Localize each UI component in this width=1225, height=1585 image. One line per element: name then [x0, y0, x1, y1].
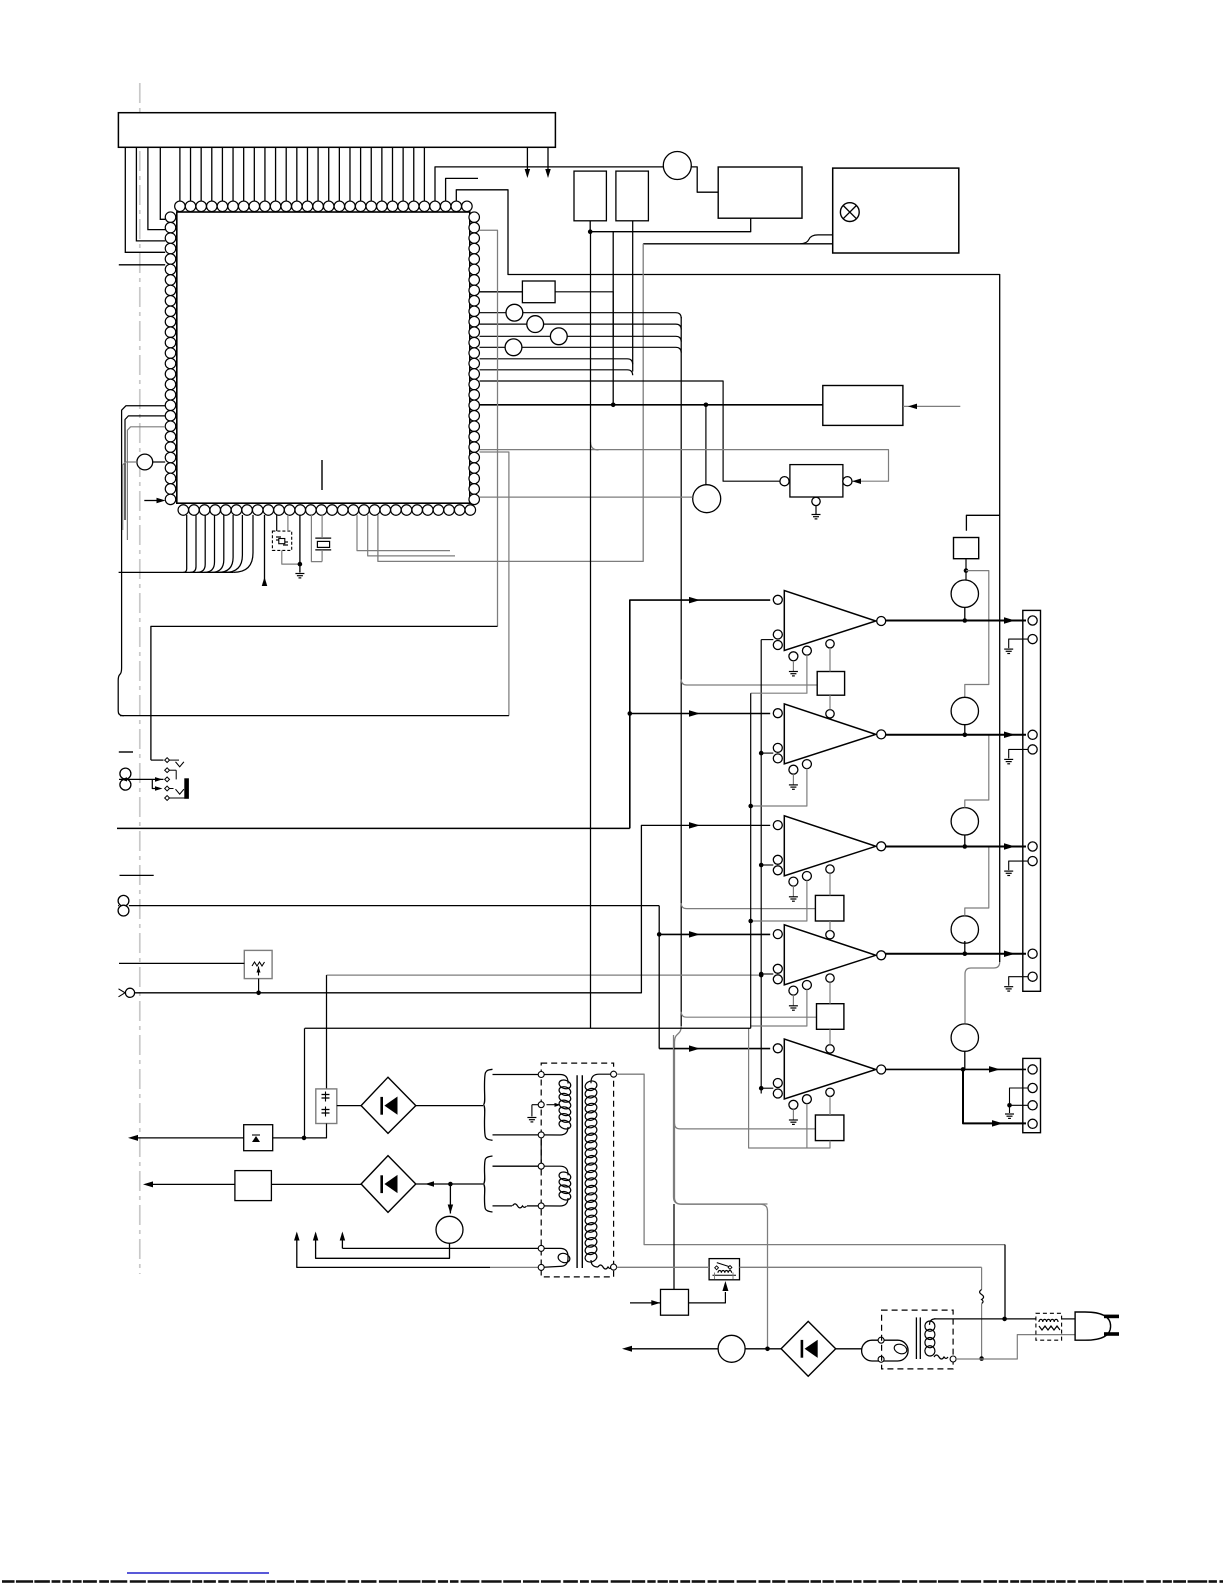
wire brace2 lower: [493, 1205, 513, 1207]
vertical reg rect 2: [616, 171, 649, 221]
cap block: [316, 1089, 337, 1124]
headphone jack: [151, 759, 164, 761]
primary link: [540, 1135, 542, 1166]
crystal X2: [315, 537, 331, 539]
wire cam switch net: [135, 825, 771, 992]
IC U1 pin1 mark: [321, 460, 323, 490]
wire output 4: [885, 953, 1026, 955]
wire trimmer in: [119, 962, 244, 964]
mode box: [823, 386, 903, 426]
vertical reg rect 1: [574, 171, 606, 221]
wire supply b: [490, 1266, 541, 1268]
wire output 5 b: [963, 1069, 1026, 1123]
transformer T2 box: [882, 1310, 954, 1369]
wire conn gnd 2: [1009, 749, 1028, 758]
wire conn gnd 3: [1009, 861, 1028, 870]
wire left pin5 stub: [119, 264, 165, 266]
wire mute row 1: [480, 312, 507, 314]
filter box: [522, 281, 555, 303]
wire label stub 875: [120, 874, 154, 876]
op-amp U6: [784, 1039, 876, 1099]
wire clock out: [435, 167, 663, 201]
wire mute row 3: [480, 335, 551, 337]
wire left long link: [120, 715, 509, 717]
wire filter out: [555, 292, 613, 337]
wire cap bottom: [304, 1124, 327, 1138]
relay drive box: [790, 465, 843, 497]
primary winding 2: [541, 1166, 568, 1175]
control box: [661, 1289, 689, 1315]
wire T2 bottom: [956, 1358, 982, 1360]
wire rect1 stem: [589, 221, 591, 232]
wire label stub 749: [119, 751, 133, 753]
footer text row: [2, 1580, 1223, 1583]
T2 core: [915, 1317, 917, 1359]
bridge rectifier D3: [781, 1321, 836, 1376]
wire xtal gnd: [299, 515, 301, 573]
wire bus left drops: [125, 147, 165, 252]
power amp box: [833, 168, 959, 253]
wire to bridge3: [745, 1348, 781, 1350]
wire left lower rows: [122, 406, 166, 668]
input pair terminals: [118, 895, 129, 906]
wire right pin box: [480, 291, 523, 293]
wire amp3 inv stub: [761, 752, 773, 754]
wire amp4 gnd: [792, 886, 794, 897]
wire control in: [630, 1302, 661, 1304]
wire control out: [689, 1292, 726, 1303]
resistor box amp6: [815, 1115, 844, 1141]
wire box bottom to rail: [590, 218, 751, 232]
wire amp5 input arrow: [659, 1048, 770, 1050]
box reset IC: [718, 167, 802, 218]
wire mute rail gray: [965, 962, 1000, 1023]
wire motor drop: [449, 1184, 451, 1214]
brace 2: [484, 1156, 493, 1212]
wire servo gray: [480, 450, 889, 482]
reel sensor circle: [137, 454, 153, 470]
wire ac line down: [1004, 1245, 1006, 1319]
wire bridge3 to pill: [836, 1348, 862, 1350]
wire fb rail to relay: [674, 1035, 768, 1204]
relay coil: [713, 1274, 737, 1276]
op-amp U5: [784, 925, 876, 985]
wire power amp drop: [378, 244, 643, 562]
wire bus exit box3: [681, 903, 815, 909]
IC U1 pins: [165, 201, 479, 515]
wire mute row 4: [480, 346, 506, 348]
secondary winding: [591, 1074, 614, 1083]
capstan motor: [436, 1216, 463, 1243]
wire amp4 inv stub: [761, 864, 773, 866]
wire left row2 stub: [125, 416, 165, 520]
wire trimmer stem: [258, 979, 260, 993]
wire 452 net: [480, 452, 509, 716]
mute circles column: [951, 580, 978, 607]
wire amp3 gnd: [792, 774, 794, 785]
wire bridge2 out: [416, 1183, 483, 1185]
wire amp3 bottom net: [751, 880, 807, 921]
wire heater right: [271, 1183, 361, 1185]
wire mode arrow up: [264, 515, 266, 586]
ac adaptor circle: [718, 1335, 745, 1362]
relay box RL1: [709, 1259, 739, 1280]
wire heater left: [146, 1183, 235, 1185]
wire bridge1 out: [416, 1105, 483, 1107]
wire amp2 inv stub: [761, 639, 773, 641]
wire rect2 drop: [632, 221, 634, 372]
connector pins 3: [1028, 842, 1037, 851]
trimmer box: [244, 950, 272, 978]
wire amp6 gnd: [792, 1109, 794, 1120]
connector pins 1: [1028, 616, 1037, 625]
mute circles: [506, 304, 523, 321]
wire bottom bus long: [151, 626, 498, 760]
wire osc to box: [691, 167, 718, 192]
resistor box amp4: [815, 895, 844, 921]
wire bus arrows down: [526, 147, 528, 173]
wire fb stems amp2: [829, 648, 831, 672]
footer blue line: [127, 1572, 269, 1574]
jack circles: [120, 768, 131, 779]
wire mute stems: [964, 607, 966, 620]
wire dac heavy: [480, 404, 823, 406]
wire record stem: [965, 559, 967, 580]
mains plug: [1075, 1312, 1111, 1340]
wire rect2 bus rows: [480, 359, 633, 365]
wire cn2 gnd: [1010, 1088, 1029, 1105]
wire amp1 bottom net: [751, 655, 807, 693]
T2 winding: [930, 1319, 936, 1325]
wire rail branch 613: [612, 232, 614, 405]
lamp symbol: [840, 203, 859, 222]
wire secondary top net: [617, 1074, 1005, 1244]
wire fb stems amp4: [829, 873, 831, 895]
wire branch power box: [966, 515, 999, 531]
wire T2 top: [934, 1318, 1036, 1320]
wire amp5 inv stub: [761, 973, 773, 975]
wire bottom left arrow: [144, 500, 160, 502]
record box: [954, 538, 979, 559]
wire reel sensor: [153, 461, 166, 463]
wire reg rail horiz: [305, 1027, 751, 1029]
wire input pair net: [129, 905, 659, 907]
wire line out long: [117, 827, 630, 829]
wire amp4 input arrow: [659, 933, 770, 935]
wire mode in: [903, 405, 960, 407]
wire motor gnd: [316, 1234, 450, 1259]
wire drum in: [480, 496, 693, 498]
wire amp2 gnd: [792, 661, 794, 672]
resonator X1: [272, 531, 291, 550]
wire output 1: [885, 620, 1026, 622]
connector CN2 pins: [1028, 1065, 1037, 1074]
wire conn gnd 4: [1009, 977, 1028, 986]
box heater: [235, 1171, 272, 1201]
wire left row3 stub: [127, 427, 165, 540]
wire filter to plug: [1062, 1318, 1076, 1320]
primary winding 1: [541, 1075, 568, 1084]
wire fb stems amp5: [829, 982, 831, 1003]
op-amp U2: [784, 591, 876, 651]
drum circle: [693, 485, 721, 513]
cam switch terminal: [125, 988, 134, 997]
wire fuse drop: [981, 1267, 983, 1289]
wire bottom fanout bus: [119, 515, 253, 572]
oscillator circle: [663, 152, 691, 180]
primary tap: [532, 1104, 541, 1106]
resistor box amp2: [817, 672, 844, 696]
wire mute row 2: [480, 323, 527, 325]
wire trim feed: [327, 974, 762, 976]
inverting bus: [760, 640, 762, 1094]
wire cap to bridge: [337, 1105, 361, 1107]
wire trim rail: [326, 975, 328, 1089]
wire relay ctl: [480, 381, 781, 481]
wire output 5: [885, 1068, 1026, 1070]
op-amp U3: [784, 704, 876, 764]
connector CN1: [1023, 610, 1041, 991]
wire output 2: [885, 734, 1026, 736]
transformer core: [576, 1075, 578, 1268]
op-amp U4: [784, 816, 876, 876]
power sw box: [244, 1125, 273, 1151]
wire power sw to cap: [273, 1137, 304, 1139]
wire to power amp: [643, 243, 833, 245]
plug prongs: [1104, 1315, 1119, 1319]
bus bar: [118, 113, 555, 148]
wire ram trio: [357, 515, 450, 551]
wire bus to IC top pins: [180, 147, 424, 201]
wire fb rail: [750, 693, 752, 1028]
wire amp4 bottom net: [751, 989, 807, 1026]
connector pins 4: [1028, 949, 1037, 958]
wire mains through relay: [617, 1266, 710, 1268]
wire supply c: [341, 1234, 343, 1249]
wire amp5 gnd: [792, 995, 794, 1006]
wire long top net: [456, 190, 999, 962]
wire fb stems amp6: [829, 1097, 831, 1116]
wire reg rail down: [590, 232, 592, 1029]
wire bus exit box1: [681, 680, 817, 686]
bridge rectifier D1: [361, 1077, 416, 1133]
fold marker chain line: [139, 83, 141, 1274]
wire dac drop: [705, 405, 707, 485]
bridge rectifier D2: [361, 1156, 416, 1213]
wire bus exit box4: [681, 1012, 816, 1018]
signal bus vertical: [680, 317, 682, 1026]
wire ac out left: [625, 1348, 719, 1350]
wire amp2 bottom net: [751, 769, 807, 807]
wire output 3: [885, 846, 1026, 848]
transformer terminals: [538, 1072, 544, 1078]
connector pins 2: [1028, 730, 1037, 739]
wire amp5 bottom net: [806, 1104, 808, 1148]
wire bus exit box5: [675, 1123, 816, 1129]
wire circle feeds: [965, 735, 989, 808]
brace 1: [484, 1069, 493, 1140]
wire record branch: [965, 571, 989, 697]
wire cap rail: [304, 1028, 306, 1138]
transformer T1 box: [541, 1063, 613, 1277]
line filter box: [1036, 1313, 1062, 1340]
wire 473 net: [480, 230, 498, 626]
wire amp bus vertical: [630, 600, 770, 828]
connector CN2: [1023, 1058, 1041, 1132]
wire crystal pins: [321, 515, 323, 538]
wire relay gnd: [812, 497, 820, 505]
thermal pill: [862, 1340, 909, 1361]
primary winding 3: [541, 1248, 568, 1267]
wire bus to relay rail: [675, 1026, 768, 1349]
wire jack line: [119, 778, 164, 780]
wire power arrow left: [131, 1137, 244, 1139]
wire box stub: [446, 178, 478, 201]
wire amp2 input arrow: [630, 713, 770, 715]
wire servo branch: [591, 442, 599, 450]
wire amp6 inv stub: [761, 1087, 773, 1089]
wire supply a: [342, 1247, 541, 1249]
wire resonator pins: [276, 515, 278, 531]
wire conn gnd 1: [1009, 639, 1028, 648]
IC U1 body: [177, 212, 470, 503]
resistor box amp5: [817, 1004, 844, 1030]
